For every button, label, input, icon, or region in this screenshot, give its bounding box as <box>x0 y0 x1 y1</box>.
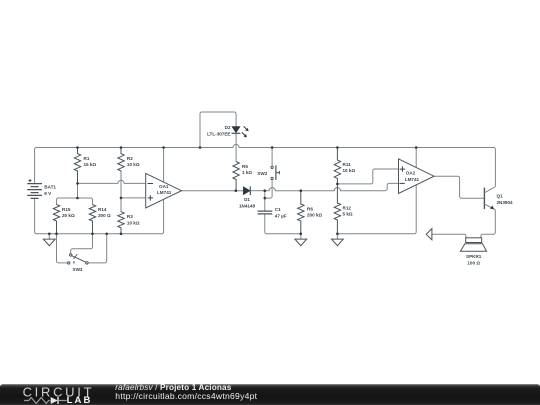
svg-text:20 kΩ: 20 kΩ <box>62 213 75 218</box>
ground G3 R12 <box>332 234 344 246</box>
wire SW3 right throw wire <box>88 234 107 263</box>
svg-text:http://circuitlab.com/ccs4wtn6: http://circuitlab.com/ccs4wtn69y4pt <box>115 391 257 401</box>
resistor R11 <box>334 148 355 184</box>
LED D2 LTL-307EE <box>207 125 249 137</box>
svg-text:LAB: LAB <box>67 395 93 405</box>
node rail R1 <box>76 146 79 149</box>
wire OA2 V+ stub <box>415 148 417 168</box>
svg-text:SW3: SW3 <box>73 267 83 272</box>
svg-text:1N4148: 1N4148 <box>239 203 256 208</box>
svg-text:R2: R2 <box>127 156 133 161</box>
node R14 bottom <box>91 233 94 236</box>
resistor R6 <box>298 191 323 234</box>
svg-text:5 kΩ: 5 kΩ <box>343 212 353 217</box>
wire SW2 top stub <box>271 148 273 167</box>
node R3 bottom <box>120 233 123 236</box>
wire signal line C1 to OA2 inverting <box>265 183 399 190</box>
op-amp OA1 LM741 <box>146 173 182 208</box>
wire R2 R3 mid vertical <box>120 172 122 212</box>
svg-text:100 Ω: 100 Ω <box>467 260 480 265</box>
wire C1 top lead <box>264 191 266 211</box>
svg-text:LM741: LM741 <box>157 190 172 195</box>
svg-text:D1: D1 <box>244 197 250 202</box>
svg-text:OA1: OA1 <box>159 184 169 189</box>
wire battery negative stub and ground rail <box>35 198 164 233</box>
wire OA1 V+ stub <box>163 148 165 183</box>
svg-text:LM741: LM741 <box>405 177 420 182</box>
wire C1 bottom lead <box>265 214 301 234</box>
CircuitLab logo <box>23 385 95 405</box>
svg-text:10 kΩ: 10 kΩ <box>343 168 356 173</box>
node rail OA1 V+ <box>162 146 165 149</box>
wire OA2 output to Q1 base wire <box>434 176 484 198</box>
ground G1 battery <box>43 234 55 246</box>
svg-text:SW2: SW2 <box>257 171 267 176</box>
node rail LED loop <box>199 146 202 149</box>
wire R15 R14 top tee <box>57 198 93 205</box>
node rail SW2 <box>271 146 274 149</box>
svg-text:10 kΩ: 10 kΩ <box>127 220 140 225</box>
node R15 bottom <box>55 233 58 236</box>
speaker SPKR1 100 Ohm <box>460 238 486 265</box>
wire top supply rail <box>35 144 496 183</box>
wire SW3 pole wire <box>71 234 93 254</box>
wire SW3 left throw wire <box>57 234 68 263</box>
svg-text:C1: C1 <box>275 207 281 212</box>
switch SW3 SPDT <box>68 254 89 272</box>
svg-text:D2: D2 <box>225 125 231 130</box>
node OA1 plus input <box>120 197 123 200</box>
wire LED loop wire <box>200 112 236 148</box>
diode D1 1N4148 <box>239 186 256 208</box>
resistor R12 <box>334 184 353 234</box>
resistor R14 <box>89 205 111 234</box>
node R1 bottom <box>76 182 79 185</box>
resistor R15 <box>53 205 75 234</box>
node rail R11 <box>336 146 339 149</box>
svg-text:9 V: 9 V <box>44 191 52 196</box>
wire SW2 bottom wire <box>265 180 272 199</box>
wire bottom right ground rail <box>337 185 416 234</box>
wire flag to speaker left wire <box>432 234 466 238</box>
wire OA1 inverting input wire <box>78 180 146 183</box>
wire top rail to Q1 collector wire <box>494 149 496 186</box>
svg-text:R14: R14 <box>98 207 107 212</box>
svg-text:R1: R1 <box>84 156 90 161</box>
node R6 bottom <box>300 233 303 236</box>
node divider tee <box>76 197 79 200</box>
svg-text:R5: R5 <box>242 164 248 169</box>
svg-text:47 µF: 47 µF <box>275 214 287 219</box>
svg-text:BAT1: BAT1 <box>44 185 56 190</box>
node SW3 right <box>105 233 108 236</box>
svg-text:15 kΩ: 15 kΩ <box>84 162 97 167</box>
svg-text:R6: R6 <box>307 206 313 211</box>
wire Q1 emitter to speaker wire <box>481 210 495 238</box>
node flag arrow <box>426 229 432 240</box>
svg-text:R15: R15 <box>62 207 71 212</box>
node rail OA2 V+ <box>415 146 418 149</box>
svg-text:200 Ω: 200 Ω <box>98 213 111 218</box>
switch SW2 pushbutton <box>257 165 279 180</box>
wire LED cathode to R5 wire <box>235 133 237 161</box>
resistor R2 <box>118 148 140 172</box>
resistor R5 <box>233 162 252 191</box>
wire OA1 non-inverting input wire <box>121 197 146 199</box>
svg-text:SPKR1: SPKR1 <box>466 254 482 259</box>
node R12 bottom <box>336 233 339 236</box>
node R11 R12 mid <box>336 183 339 186</box>
svg-text:1 kΩ: 1 kΩ <box>242 170 252 175</box>
op-amp OA2 LM741 <box>399 159 435 194</box>
wire D1 cathode wire <box>250 190 264 192</box>
wire OA1 output to D1 wire <box>182 190 244 192</box>
svg-text:R11: R11 <box>343 162 352 167</box>
node R5 bottom <box>235 189 238 192</box>
svg-text:Q1: Q1 <box>497 194 504 199</box>
svg-text:10 kΩ: 10 kΩ <box>127 162 140 167</box>
svg-text:OA2: OA2 <box>406 171 416 176</box>
battery BAT1 9V <box>27 179 56 198</box>
svg-text:200 kΩ: 200 kΩ <box>307 213 322 218</box>
capacitor C1 47uF <box>258 207 287 218</box>
wire R1 bottom to divider tee <box>77 183 79 198</box>
node SW2 C1 join <box>264 197 267 200</box>
svg-text:R12: R12 <box>343 205 352 210</box>
svg-text:R3: R3 <box>127 214 133 219</box>
node C1 branch <box>264 189 267 192</box>
node rail R2 <box>120 146 123 149</box>
resistor R3 <box>118 212 140 234</box>
node ground tee <box>48 233 51 236</box>
svg-text:2N3904: 2N3904 <box>497 200 514 205</box>
footer bar <box>0 384 540 405</box>
node R6 top <box>300 189 303 192</box>
ground G2 C1 R6 <box>295 234 307 246</box>
transistor Q1 2N3904 <box>484 187 513 210</box>
resistor R1 <box>74 148 96 184</box>
wire OA2 non-inverting input wire <box>337 169 398 184</box>
svg-text:LTL-307EE: LTL-307EE <box>207 132 230 137</box>
